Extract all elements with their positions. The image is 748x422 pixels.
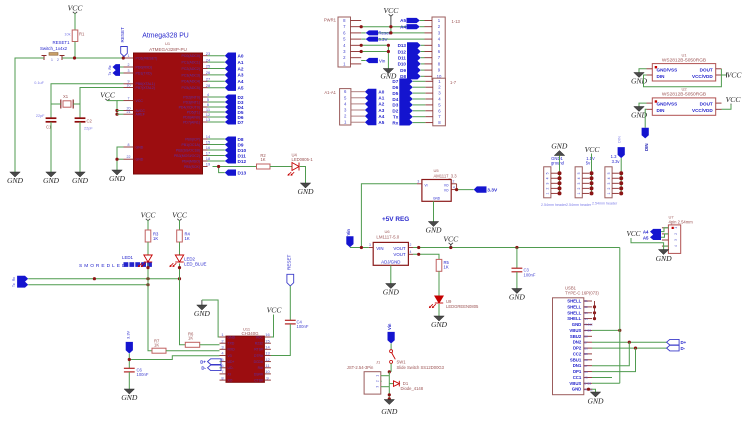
svg-text:D2: D2 xyxy=(392,109,398,114)
capacitor C1 22pF xyxy=(46,117,57,119)
svg-text:VOUT: VOUT xyxy=(393,252,406,257)
svg-text:GND/VSS: GND/VSS xyxy=(657,67,678,72)
svg-text:1-7: 1-7 xyxy=(450,80,457,85)
power VCC (U1 ws2812) xyxy=(722,74,727,76)
svg-text:PWR1: PWR1 xyxy=(324,18,337,23)
node D+/D- tags (U11) xyxy=(208,359,222,365)
svg-text:VCC: VCC xyxy=(585,145,601,154)
svg-text:1: 1 xyxy=(51,58,53,62)
svg-text:3: 3 xyxy=(128,69,130,73)
wire Rx rail xyxy=(28,278,179,280)
svg-text:4: 4 xyxy=(546,177,550,179)
ground GND (C3) xyxy=(512,289,522,294)
svg-text:2: 2 xyxy=(546,187,550,189)
wire D13 net to R2 xyxy=(213,166,257,168)
svg-text:A4: A4 xyxy=(238,79,244,84)
wire R2 to LED U4 xyxy=(270,166,292,168)
svg-text:LED1: LED1 xyxy=(122,255,134,260)
USB1 pins xyxy=(567,299,593,392)
junction switch-gnd net xyxy=(388,393,391,396)
wire Tx rail xyxy=(28,284,148,286)
wire Vin to SW1 xyxy=(390,344,392,350)
junction V3 net xyxy=(128,358,131,361)
svg-text:GND: GND xyxy=(136,158,144,162)
svg-text:100nF: 100nF xyxy=(297,324,309,329)
svg-text:SBU1: SBU1 xyxy=(570,357,582,362)
svg-text:D-: D- xyxy=(201,366,206,371)
svg-text:3: 3 xyxy=(607,182,611,184)
LED LED2 LED_BLUE xyxy=(175,255,183,262)
svg-text:RI#: RI# xyxy=(258,366,263,370)
wire A5 to header pin1 xyxy=(420,20,425,22)
svg-text:UD+: UD+ xyxy=(228,360,235,364)
svg-text:GND: GND xyxy=(121,393,138,402)
svg-text:AREF: AREF xyxy=(136,113,145,117)
U1 right pin stubs group D (4-13) xyxy=(179,92,225,124)
wire VBUS bottom xyxy=(592,382,620,384)
svg-text:DN1: DN1 xyxy=(573,363,582,368)
svg-text:2.54mm header: 2.54mm header xyxy=(592,202,618,206)
svg-text:23: 23 xyxy=(206,51,211,56)
svg-text:4: 4 xyxy=(674,245,678,247)
resistor R2 1K xyxy=(257,164,271,169)
svg-text:PC4(ADC4): PC4(ADC4) xyxy=(182,80,200,84)
wire PWR1 pin3 to ground xyxy=(361,51,388,53)
wire crystal to caps xyxy=(51,103,61,105)
svg-text:PD1(TXD): PD1(TXD) xyxy=(136,71,152,75)
svg-text:SMOREDLED: SMOREDLED xyxy=(79,263,127,269)
junction DP xyxy=(634,347,637,350)
svg-text:DSR#: DSR# xyxy=(254,372,263,376)
svg-text:1K: 1K xyxy=(154,343,159,348)
svg-text:PD0(RXD): PD0(RXD) xyxy=(136,65,153,69)
wire header3 bus xyxy=(620,158,622,193)
U5 pins xyxy=(417,183,422,185)
svg-text:GND: GND xyxy=(509,293,526,302)
svg-text:VIN: VIN xyxy=(376,246,383,251)
svg-text:A1: A1 xyxy=(238,60,244,65)
svg-text:A4: A4 xyxy=(400,24,406,29)
svg-text:Rx: Rx xyxy=(12,277,16,281)
svg-text:VCC: VCC xyxy=(727,70,743,79)
svg-text:A5: A5 xyxy=(643,235,649,240)
wire U5 to ground xyxy=(433,201,435,221)
svg-text:PB7(XTAL2): PB7(XTAL2) xyxy=(136,86,155,90)
svg-text:1K: 1K xyxy=(153,236,158,241)
svg-text:GND: GND xyxy=(109,174,126,183)
wire GND loop to U11 pin1 xyxy=(202,300,220,337)
svg-text:PB3(MOSI/OC2): PB3(MOSI/OC2) xyxy=(174,154,200,158)
svg-text:1: 1 xyxy=(607,193,611,195)
wire D tags to 1-7 header xyxy=(413,81,426,122)
svg-text:PD5(T1): PD5(T1) xyxy=(187,110,200,114)
svg-text:B7: B7 xyxy=(584,340,588,344)
svg-text:RTS#: RTS# xyxy=(254,348,263,352)
svg-text:SHELL: SHELL xyxy=(567,316,581,321)
svg-text:PD7(AIN1): PD7(AIN1) xyxy=(183,120,200,124)
ground GND (U6) xyxy=(386,284,396,289)
svg-text:VCC: VCC xyxy=(256,335,264,339)
ground GND (C2) xyxy=(75,172,85,177)
node Rx/Tx tags (left edge) xyxy=(17,276,28,288)
svg-text:VCC: VCC xyxy=(141,211,157,220)
ground GND (U1) xyxy=(112,170,122,175)
svg-text:2: 2 xyxy=(410,243,412,247)
wire R5 to LED U9 xyxy=(438,271,440,296)
svg-text:22: 22 xyxy=(127,155,131,159)
svg-text:VO: VO xyxy=(444,183,449,187)
svg-text:2: 2 xyxy=(607,187,611,189)
node D2-D7 tags xyxy=(225,95,236,125)
wire Vin to U6 xyxy=(350,247,369,249)
wire LED1 down to R7 xyxy=(148,264,152,351)
svg-text:13: 13 xyxy=(206,117,211,122)
wire 3.3V tag to C6 and U11 pin4 xyxy=(128,354,130,369)
svg-text:3: 3 xyxy=(417,180,419,184)
junction SHELL pins xyxy=(593,305,596,308)
node Reset tag (3.3V header) xyxy=(366,30,378,35)
wire VBUS to 5V rail xyxy=(592,329,620,331)
svg-text:GND/VSS: GND/VSS xyxy=(657,102,678,107)
svg-text:A5: A5 xyxy=(584,376,588,380)
wire reset net to U1 pin1 xyxy=(62,57,124,59)
svg-text:3: 3 xyxy=(369,243,371,247)
svg-text:LED0805-1: LED0805-1 xyxy=(292,157,314,162)
svg-text:D9: D9 xyxy=(238,142,244,147)
svg-text:Diode_4148: Diode_4148 xyxy=(401,386,424,391)
svg-text:V3: V3 xyxy=(228,354,232,358)
svg-text:A6: A6 xyxy=(584,370,588,374)
capacitor C6 100nF xyxy=(124,367,135,369)
connector 3.3v header xyxy=(605,167,612,198)
resistor R1 xyxy=(72,30,78,42)
svg-text:10: 10 xyxy=(127,83,131,87)
svg-text:2: 2 xyxy=(577,187,581,189)
svg-text:10: 10 xyxy=(265,369,270,374)
wire C1 to ground xyxy=(50,122,52,172)
svg-text:SHELL: SHELL xyxy=(567,304,581,309)
wire 5V rail vertical xyxy=(619,248,621,384)
svg-text:4: 4 xyxy=(607,177,611,179)
wire R7 to U11 pin3 xyxy=(166,350,220,352)
svg-text:U2: U2 xyxy=(681,87,687,92)
transistor SW1 slide switch xyxy=(390,350,393,353)
svg-text:28: 28 xyxy=(206,83,211,88)
svg-text:+5V REG: +5V REG xyxy=(382,216,409,223)
svg-text:5: 5 xyxy=(607,172,611,174)
junction pin3 xyxy=(360,50,363,53)
ground GND (U1 ws2812) xyxy=(634,73,644,78)
wire U2 GND xyxy=(639,103,647,106)
svg-text:14: 14 xyxy=(206,134,211,139)
node Vin tag (power header) xyxy=(366,58,378,63)
ground GND (U11 pin1 loop) xyxy=(197,305,207,310)
svg-text:4: 4 xyxy=(453,185,455,189)
svg-text:DIN: DIN xyxy=(657,108,666,113)
svg-text:1K: 1K xyxy=(260,157,265,162)
svg-text:DOUT: DOUT xyxy=(700,102,713,107)
svg-text:D12: D12 xyxy=(238,159,247,164)
svg-text:3: 3 xyxy=(674,239,678,241)
svg-text:Atmega328 PU: Atmega328 PU xyxy=(142,33,189,40)
wire C3 to ground xyxy=(516,272,518,289)
svg-text:3.3V: 3.3V xyxy=(126,330,131,339)
svg-text:1K: 1K xyxy=(185,236,190,241)
svg-text:3: 3 xyxy=(546,182,550,184)
svg-text:26: 26 xyxy=(206,70,211,75)
svg-text:RESET: RESET xyxy=(287,254,292,270)
svg-text:CC1: CC1 xyxy=(573,375,582,380)
svg-text:UD-: UD- xyxy=(228,366,234,370)
node D8-D12 tags xyxy=(225,137,236,164)
wire DN bridge xyxy=(592,342,629,366)
svg-text:4pin 2.54mm: 4pin 2.54mm xyxy=(669,219,694,224)
wire RESET to C4 xyxy=(289,286,291,320)
wire C4 to U11 pin13 xyxy=(271,324,290,356)
svg-text:D10: D10 xyxy=(238,148,247,153)
svg-text:A3: A3 xyxy=(378,108,384,113)
svg-text:PD2(INT0): PD2(INT0) xyxy=(183,95,200,99)
node A0-A5 tags (header) xyxy=(365,89,377,126)
capacitor C3 100nF xyxy=(516,248,518,269)
svg-text:PB0(ICP): PB0(ICP) xyxy=(185,137,200,141)
svg-text:WS2812B-5050RGB: WS2812B-5050RGB xyxy=(662,92,706,98)
svg-text:D+: D+ xyxy=(681,340,687,345)
svg-text:ground: ground xyxy=(551,161,565,166)
U6 pins xyxy=(369,247,374,249)
svg-text:A5: A5 xyxy=(400,18,406,23)
svg-text:ATMEGA328P-PU: ATMEGA328P-PU xyxy=(149,47,187,52)
svg-text:D11: D11 xyxy=(398,56,407,61)
junction U5 out xyxy=(455,188,458,191)
svg-text:SW1: SW1 xyxy=(397,360,407,365)
wire U6 adj to ground xyxy=(390,265,392,283)
wire USB GND xyxy=(592,389,596,392)
node D13-D8 tags xyxy=(398,42,421,79)
svg-text:LEDGREEN0805: LEDGREEN0805 xyxy=(446,304,479,309)
wire SHELL bus xyxy=(594,301,596,319)
svg-text:18: 18 xyxy=(206,156,211,161)
svg-text:12: 12 xyxy=(265,357,270,362)
svg-text:A8: A8 xyxy=(584,358,588,362)
svg-text:PC2(ADC2): PC2(ADC2) xyxy=(182,67,200,71)
svg-text:WS2812B-5050RGB: WS2812B-5050RGB xyxy=(662,57,706,63)
svg-text:16: 16 xyxy=(265,332,270,337)
svg-text:A4: A4 xyxy=(643,229,649,234)
svg-text:D6: D6 xyxy=(392,85,398,90)
ground GND (SW1) xyxy=(384,400,394,405)
wire J1 pins to switch net xyxy=(381,375,390,377)
wire 5V rail xyxy=(413,247,620,249)
svg-text:D13: D13 xyxy=(398,43,407,48)
junction VCC-A4 xyxy=(360,25,363,28)
svg-text:D12: D12 xyxy=(398,49,407,54)
wire Vin tag stub xyxy=(361,60,366,62)
ground GND (C6) xyxy=(124,389,134,394)
svg-text:21: 21 xyxy=(127,110,131,114)
svg-text:R232: R232 xyxy=(255,342,263,346)
wire CC1 stub xyxy=(592,377,612,379)
svg-text:D9: D9 xyxy=(400,68,406,73)
svg-text:Tx: Tx xyxy=(12,283,16,287)
node A0-A5 tags xyxy=(225,53,236,91)
svg-text:24: 24 xyxy=(206,57,211,62)
svg-text:Rx: Rx xyxy=(108,65,112,69)
svg-text:RXD: RXD xyxy=(228,348,236,352)
svg-text:2: 2 xyxy=(376,380,380,382)
svg-text:VOUT: VOUT xyxy=(393,246,406,251)
svg-text:SHELL: SHELL xyxy=(567,299,581,304)
node 3.3V tag (U5 out) xyxy=(474,186,487,192)
node D7-Rx tags xyxy=(399,78,413,125)
svg-text:Switch_1x4x2: Switch_1x4x2 xyxy=(40,46,68,51)
wire reset switch to GND rail xyxy=(15,58,44,172)
wire VCC to U7 pin4 and ground xyxy=(631,238,668,246)
svg-text:VCC: VCC xyxy=(100,91,116,100)
svg-text:LM1117-5.0: LM1117-5.0 xyxy=(376,235,399,240)
svg-text:GND: GND xyxy=(572,322,582,327)
svg-text:B6: B6 xyxy=(584,346,588,350)
svg-text:S2: S2 xyxy=(584,305,588,309)
ground GND (USB) xyxy=(590,392,600,397)
svg-text:GND: GND xyxy=(136,145,144,149)
junction Reset net xyxy=(389,31,392,34)
svg-text:GND: GND xyxy=(43,176,60,185)
U1 right pin stubs group A (23-28) xyxy=(182,51,225,90)
svg-text:GND: GND xyxy=(572,387,582,392)
svg-text:19: 19 xyxy=(206,162,211,167)
svg-text:A5: A5 xyxy=(378,120,384,125)
ground GND (switch) xyxy=(10,172,20,177)
svg-text:7: 7 xyxy=(128,96,130,100)
wire DN2 to D- tag xyxy=(592,341,667,343)
svg-text:DIN: DIN xyxy=(617,136,622,143)
wire D tags to header xyxy=(421,45,425,76)
wire R3 to LED1 xyxy=(147,242,149,255)
svg-text:PC5(ADC5): PC5(ADC5) xyxy=(182,86,200,90)
svg-text:8: 8 xyxy=(128,143,130,147)
svg-text:A1: A1 xyxy=(378,96,384,101)
svg-text:VCC: VCC xyxy=(384,6,400,15)
svg-text:U1: U1 xyxy=(681,52,687,57)
svg-text:VCC: VCC xyxy=(136,99,144,103)
svg-text:22pF: 22pF xyxy=(84,127,93,131)
svg-text:Tx: Tx xyxy=(393,115,399,120)
svg-text:3.3V: 3.3V xyxy=(487,188,498,194)
svg-text:A0: A0 xyxy=(378,90,384,95)
svg-text:1: 1 xyxy=(674,227,678,229)
svg-text:XO: XO xyxy=(228,379,233,383)
resistor R3 1K xyxy=(145,230,151,242)
svg-text:PD4(XCK/T0): PD4(XCK/T0) xyxy=(179,105,200,109)
svg-text:4: 4 xyxy=(577,177,581,179)
IC U1 WS2812B-5050RGB xyxy=(652,64,715,81)
U11 right pins xyxy=(254,332,271,382)
svg-text:1-13: 1-13 xyxy=(452,19,461,24)
svg-text:GND: GND xyxy=(297,187,314,196)
svg-text:15: 15 xyxy=(206,140,211,145)
wire DP bridge xyxy=(592,348,636,372)
svg-text:S3: S3 xyxy=(584,311,588,315)
svg-text:PD6(AIN0): PD6(AIN0) xyxy=(183,115,200,119)
wire SW1 to J1 node xyxy=(390,363,392,372)
wire U2 DIN to tag xyxy=(645,109,646,128)
svg-text:5: 5 xyxy=(546,172,550,174)
svg-text:VBUS: VBUS xyxy=(569,328,581,333)
svg-text:PC6(/RESET): PC6(/RESET) xyxy=(136,56,158,60)
svg-text:A1B12: A1B12 xyxy=(584,323,593,327)
svg-text:A2: A2 xyxy=(378,102,384,107)
svg-text:B4B9: B4B9 xyxy=(584,382,591,386)
wire U6 second output to R5 xyxy=(413,254,439,259)
svg-text:27: 27 xyxy=(206,77,211,82)
svg-text:B5: B5 xyxy=(584,352,588,356)
svg-text:13: 13 xyxy=(265,351,270,356)
svg-text:B8: B8 xyxy=(584,335,588,339)
svg-text:VCC/VDD: VCC/VDD xyxy=(692,74,713,79)
wire C2 to ground xyxy=(79,122,81,172)
svg-text:TXD: TXD xyxy=(228,342,235,346)
svg-text:3: 3 xyxy=(577,182,581,184)
svg-text:JST-2.54-3Pin: JST-2.54-3Pin xyxy=(347,365,374,370)
wire D+/D- to U11 xyxy=(220,361,222,363)
ground GND (U7) xyxy=(658,250,668,255)
svg-text:Tx: Tx xyxy=(108,71,112,75)
svg-text:1: 1 xyxy=(376,375,380,377)
wire U4 to ground xyxy=(300,167,306,184)
capacitor C2 22pF xyxy=(75,117,86,119)
svg-text:10k: 10k xyxy=(64,33,70,37)
svg-text:GND: GND xyxy=(7,176,24,185)
junction DN xyxy=(628,341,631,344)
wire Rx/Tx to U1 xyxy=(120,66,124,68)
ground GND (PWR1) xyxy=(383,69,393,74)
svg-text:D11: D11 xyxy=(238,153,247,158)
resistor R6 1K xyxy=(185,342,199,347)
svg-text:A7: A7 xyxy=(584,364,588,368)
LED U9 LEDGREEN0805 xyxy=(435,296,443,303)
connector 5v header xyxy=(575,167,582,198)
svg-text:CTS#: CTS# xyxy=(254,379,263,383)
capacitor C4 100nF xyxy=(285,319,296,321)
wire U5 input from Vin net xyxy=(361,184,417,248)
wire XTAL2 net xyxy=(80,88,124,118)
svg-text:U6: U6 xyxy=(384,229,390,234)
wire R1 to reset net xyxy=(74,42,76,59)
svg-text:1K: 1K xyxy=(188,336,193,341)
svg-text:PC3(ADC3): PC3(ADC3) xyxy=(182,73,200,77)
svg-text:X1: X1 xyxy=(63,94,69,99)
svg-text:1K: 1K xyxy=(444,265,449,270)
svg-text:U1: U1 xyxy=(165,41,171,46)
node D13 tag xyxy=(225,170,236,176)
wire XTAL1 net xyxy=(51,84,124,118)
wire VCC to U1 pins xyxy=(108,101,118,115)
svg-text:D7: D7 xyxy=(238,120,244,125)
svg-text:D7: D7 xyxy=(392,79,398,84)
svg-text:3: 3 xyxy=(376,386,380,388)
svg-text:GND: GND xyxy=(656,254,673,263)
junction pin4 xyxy=(360,44,363,47)
svg-text:XI: XI xyxy=(228,372,231,376)
svg-text:AM1117_3.3: AM1117_3.3 xyxy=(434,173,458,178)
svg-text:VCC: VCC xyxy=(627,230,641,238)
svg-text:2: 2 xyxy=(57,58,59,62)
junction VCC pins xyxy=(115,109,118,112)
svg-text:DP2: DP2 xyxy=(573,346,582,351)
wire DP2 to D+ tag xyxy=(592,347,667,349)
junction rails xyxy=(93,277,96,280)
